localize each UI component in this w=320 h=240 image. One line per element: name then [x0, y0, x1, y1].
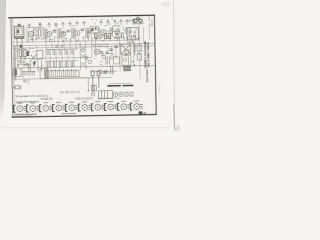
bleeder resistor chain — [133, 43, 136, 55]
left cluster small marks — [17, 59, 42, 72]
oscillator box — [90, 26, 98, 33]
filter cap can — [137, 45, 141, 60]
bottom-right corner shadow — [174, 125, 180, 132]
tube V6 — [115, 29, 120, 34]
junction dots left — [17, 45, 39, 69]
footer note line 1 — [15, 113, 36, 115]
layout circle 1 — [113, 92, 117, 96]
socket X10 — [131, 101, 143, 110]
margin pencil marks — [158, 84, 161, 93]
resistor R3 — [19, 50, 22, 57]
resistor R8 — [111, 53, 113, 59]
wire left riser — [14, 46, 17, 79]
resistor zigzag R3a — [28, 47, 30, 56]
filter choke block — [14, 68, 21, 77]
tube V5 — [101, 30, 106, 35]
BD publisher logo — [139, 111, 150, 115]
grid cap marks — [94, 26, 123, 39]
junction box left — [91, 85, 96, 91]
bus crossover X1 — [55, 45, 64, 48]
socket X3 — [40, 103, 52, 112]
capacitors row mid-right — [91, 71, 106, 92]
wire bus B — [13, 43, 154, 46]
heading underline bar 1 — [107, 85, 121, 87]
capacitor C7 — [100, 52, 103, 54]
capacitor C4 — [20, 61, 22, 63]
transformer secondary leads — [27, 29, 29, 42]
capacitor C5 — [26, 63, 28, 65]
socket X1 — [14, 103, 26, 112]
socket X4 — [53, 102, 65, 111]
IF transformer L3 — [72, 28, 75, 38]
coil bank interconnects — [46, 49, 74, 72]
crossing wires node — [31, 55, 36, 61]
svg-text:PAGE 7: PAGE 7 — [151, 18, 154, 26]
scanner edge strip left — [0, 0, 6, 122]
socket X2 — [27, 103, 39, 112]
coil bank row 1 — [46, 49, 78, 54]
bottom page curvature smear — [0, 127, 170, 129]
choke label ticks — [12, 69, 23, 78]
tube V2 — [47, 32, 52, 37]
tube V1 — [28, 31, 33, 36]
resistor R1 — [34, 29, 36, 36]
paper background — [0, 0, 180, 131]
resistor R5 — [37, 50, 43, 59]
footer note center — [62, 112, 76, 114]
svg-text:PHILCO RADIO CORP 96: PHILCO RADIO CORP 96 — [146, 42, 150, 67]
capacitor C1 — [53, 30, 56, 32]
left border inner line — [13, 45, 16, 81]
socket X5 — [66, 102, 78, 111]
choke core bar — [15, 69, 17, 75]
twisted pair crossings — [80, 46, 86, 66]
interstage box — [113, 56, 131, 66]
svg-text:co: co — [147, 113, 149, 115]
scan speckle texture — [13, 18, 155, 115]
sheet wash — [12, 16, 156, 117]
AVC diode circle — [81, 49, 84, 52]
wire bus A — [14, 40, 140, 42]
output transformer laminations — [123, 66, 130, 71]
frame top border (heavy) — [9, 15, 155, 18]
tube lead stubs — [45, 36, 135, 42]
terminal dots right — [132, 61, 135, 66]
tube V3 — [61, 31, 66, 36]
capacitor C3 — [81, 29, 84, 31]
rectifier section box — [127, 27, 139, 39]
svg-text:MODEL 96: MODEL 96 — [41, 97, 53, 100]
capacitor C8 — [106, 52, 109, 54]
small rect component — [106, 36, 110, 39]
coil L5 — [98, 28, 100, 37]
node dots top row — [49, 40, 118, 42]
antenna caret symbols row — [28, 19, 135, 28]
tube V7 — [125, 28, 131, 34]
resistor R6 — [94, 44, 100, 46]
socket X8 — [105, 101, 117, 110]
IF transformer L1 — [44, 29, 47, 39]
tube V4 — [75, 31, 80, 36]
output transformer box — [23, 69, 48, 84]
coil L6 — [111, 27, 113, 36]
dark component stack — [20, 51, 35, 65]
resistor R4 — [24, 50, 27, 57]
wire bus D — [13, 57, 92, 58]
frame bottom border (heavy) — [12, 114, 156, 117]
resistor R2 — [38, 29, 40, 36]
wire bus C — [13, 46, 154, 49]
wire stub lower — [88, 78, 90, 92]
converter grid box — [113, 26, 119, 32]
coupling caps small — [30, 37, 43, 40]
tone control parts — [90, 69, 117, 75]
svg-text:TUBE SOCKETS: TUBE SOCKETS — [75, 97, 94, 100]
caption line 2 — [16, 101, 39, 103]
smudge top right — [161, 2, 172, 7]
socket X6 — [79, 102, 91, 111]
electrolytic cap dark — [20, 45, 22, 48]
trimmer circle — [91, 93, 94, 96]
tiny caption above bars — [109, 82, 131, 84]
power transformer T1 — [14, 23, 25, 58]
resistor strip hatch — [23, 65, 35, 75]
schematic frame border — [11, 15, 156, 117]
vertical feeders from tubes — [46, 19, 141, 81]
pilot lamp rosettes — [128, 17, 144, 24]
wire bus E — [13, 65, 154, 68]
tube V8 — [94, 49, 99, 54]
coil L4 — [86, 28, 89, 38]
IF transformer L2 — [58, 28, 61, 38]
svg-text:VOLTAGES: VOLTAGES — [146, 69, 149, 83]
resistor R7 — [102, 44, 108, 46]
layout circle dots — [115, 94, 116, 95]
volume control pot — [88, 60, 92, 64]
pin label dots — [92, 18, 119, 25]
socket X7 — [92, 102, 104, 111]
layout circle 2 — [119, 92, 123, 96]
rectifier box bottom marks — [128, 41, 134, 44]
svg-text:AND SPEAKER PLUG: AND SPEAKER PLUG — [98, 97, 120, 100]
wire drops mid — [99, 27, 150, 67]
coil L7 hatch — [105, 56, 112, 73]
wire left riser 2 — [13, 19, 15, 116]
svg-text:7A4 7B6 7C6 7Y4: 7A4 7B6 7C6 7Y4 — [59, 91, 80, 94]
wire bus F — [13, 77, 112, 79]
layout small parts — [125, 92, 133, 96]
terminal strip board — [45, 70, 90, 78]
junction dots bus — [80, 43, 135, 67]
label dashes left cluster — [17, 61, 27, 63]
capacitor C2 — [67, 30, 70, 32]
capacitor C6 — [102, 55, 106, 59]
coil bank row 2 — [46, 61, 78, 66]
socket X9 — [118, 101, 130, 110]
small caps cluster — [110, 46, 118, 51]
speaker field coil box — [121, 44, 131, 54]
page right edge — [174, 0, 175, 131]
component value labels (illegible) — [16, 24, 150, 66]
tube V5a — [109, 30, 113, 34]
frame right border — [154, 16, 156, 114]
chassis layout box — [98, 90, 112, 98]
heading underline bar 2 — [122, 85, 133, 87]
AVC diode circle 2 — [85, 56, 88, 59]
detector cluster squiggles — [26, 24, 44, 42]
misc marks near oscillator — [91, 29, 120, 39]
footer note line 2 — [15, 115, 31, 117]
driver tube circle — [125, 50, 129, 54]
oscillator box innards — [91, 27, 96, 31]
plate resistors row — [95, 33, 124, 39]
resistor board remnant — [13, 86, 21, 90]
